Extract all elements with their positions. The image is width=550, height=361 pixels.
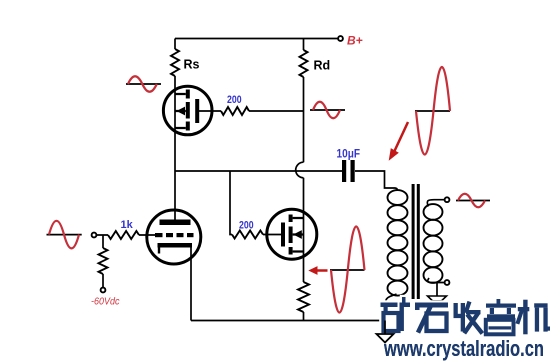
- svg-text:200: 200: [227, 94, 242, 106]
- svg-text:1k: 1k: [121, 219, 134, 231]
- svg-text:Rd: Rd: [314, 59, 331, 73]
- svg-text:Rs: Rs: [184, 58, 200, 72]
- svg-text:www.crystalradio.cn: www.crystalradio.cn: [383, 336, 544, 361]
- svg-text:200: 200: [239, 220, 254, 232]
- svg-text:10μF: 10μF: [337, 149, 361, 161]
- svg-text:-60Vdc: -60Vdc: [91, 296, 120, 308]
- svg-text:B+: B+: [347, 34, 363, 48]
